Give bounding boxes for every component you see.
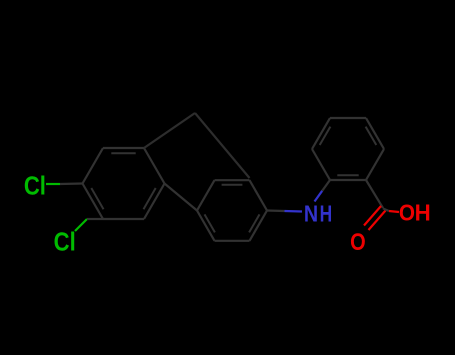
bond C-OH (red half) (389, 211, 399, 212)
svg-text:Cl: Cl (54, 228, 76, 257)
svg-text:H: H (415, 199, 431, 225)
bond ringA-ringC biaryl link (165, 184, 198, 211)
svg-text:O: O (350, 228, 366, 255)
bridge bond ringA-apex (144, 113, 195, 148)
ring C side 6 (aromatic double) (197, 211, 215, 241)
ring C side 5 (215, 240, 250, 242)
ring C side 2 (aromatic double) (215, 179, 250, 181)
bond N-C2 (blue half) (315, 191, 323, 202)
ring R side 6 (312, 149, 330, 180)
ring C side 4 (aromatic double) (250, 211, 268, 241)
svg-text:Cl: Cl (24, 172, 46, 201)
ring R side 1 (aromatic double) (330, 179, 366, 181)
bond C1-COOH (366, 180, 383, 208)
ring A side 3 (144, 148, 165, 184)
ring R side 4 (330, 117, 366, 119)
ring R side 2 (366, 149, 384, 180)
ring A side 5 (103, 218, 144, 220)
ring R side 5 (aromatic double) (312, 118, 330, 149)
bridge bond apex-ringC (195, 113, 250, 178)
ring A side 6 (aromatic double) (83, 184, 104, 220)
bond N-C2 (dark half) (322, 180, 330, 191)
ring C side 1 (197, 180, 215, 210)
svg-text:H: H (320, 201, 333, 227)
bond C-Cl1 (green half) (46, 183, 60, 185)
svg-text:N: N (304, 200, 318, 227)
bond C-N (dark half) (267, 209, 285, 212)
ring A side 2 (aromatic double) (103, 147, 144, 149)
bond C-Cl2 (dark half) (87, 218, 103, 220)
bond C=O double line 1 (red) (364, 206, 381, 226)
bond C-Cl2 (green half) (75, 219, 87, 231)
bond C-N (blue half) (285, 210, 303, 213)
svg-text:O: O (399, 199, 415, 225)
ring A side 4 (aromatic double) (144, 184, 165, 220)
bond C-Cl1 (dark half) (60, 182, 83, 185)
bond C-OH (dark half) (383, 209, 389, 212)
ring R side 3 (aromatic double) (366, 118, 384, 149)
ring A side 1 (83, 148, 104, 184)
ring C side 3 (250, 180, 268, 210)
bond C=O double line 2 (red) (369, 211, 386, 231)
